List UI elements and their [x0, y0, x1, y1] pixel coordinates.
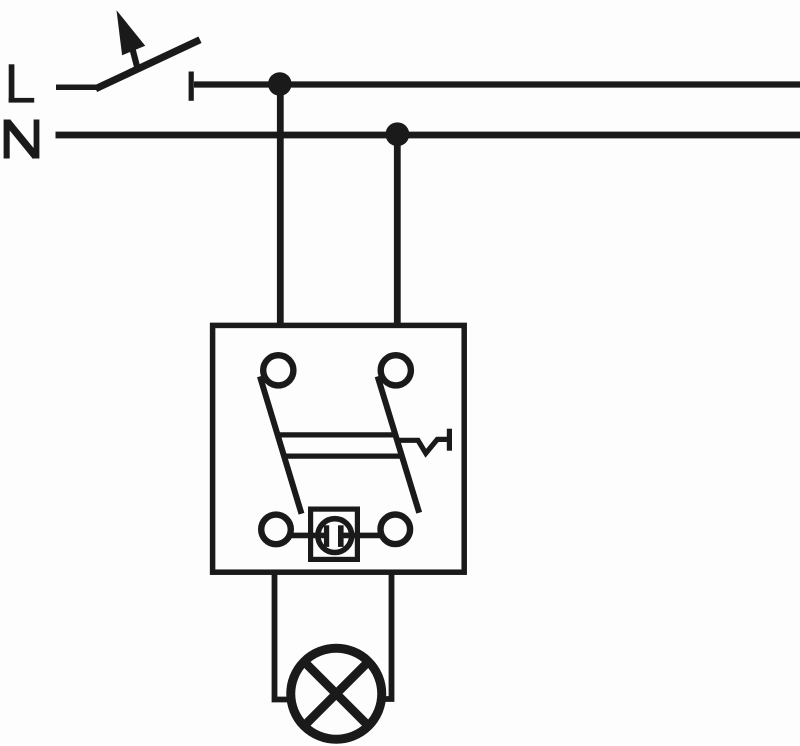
- glow lamp bulb: [318, 519, 352, 553]
- wire L rail: [194, 81, 800, 87]
- lamp wire right: [379, 572, 392, 699]
- terminal top-right: [381, 355, 411, 385]
- linkage bar upper: [279, 432, 398, 437]
- switch unit box: [213, 325, 465, 572]
- contact lever left: [260, 376, 302, 513]
- label N: [4, 120, 40, 159]
- wire drop from L to switch unit: [277, 84, 284, 326]
- linkage bar lower: [285, 453, 404, 458]
- lamp E1 cross: [304, 662, 368, 726]
- glow lamp box: [311, 509, 358, 559]
- fixed contact tick: [189, 72, 194, 101]
- contact lever right: [378, 376, 420, 512]
- push actuator squiggle: [399, 439, 448, 453]
- terminal top-left: [263, 355, 293, 385]
- junction dot on L rail: [268, 72, 292, 96]
- label L: [9, 64, 35, 102]
- wire drop from N to switch unit: [394, 134, 401, 326]
- terminal bottom-left: [261, 515, 291, 545]
- terminal bottom-right: [381, 515, 411, 545]
- junction dot on N rail: [386, 122, 410, 146]
- switch S1 actuator arrow: [117, 10, 146, 67]
- glow lamp electrode right: [338, 525, 344, 547]
- lamp wire left: [275, 572, 288, 700]
- glow lamp electrode left: [324, 525, 329, 547]
- push actuator stop bar: [447, 429, 452, 451]
- glow lamp connector left: [292, 533, 327, 539]
- glow lamp connector right: [341, 533, 380, 539]
- lamp E1 circle: [291, 648, 382, 739]
- switch S1 lever: [56, 40, 200, 89]
- wire N rail: [56, 132, 800, 139]
